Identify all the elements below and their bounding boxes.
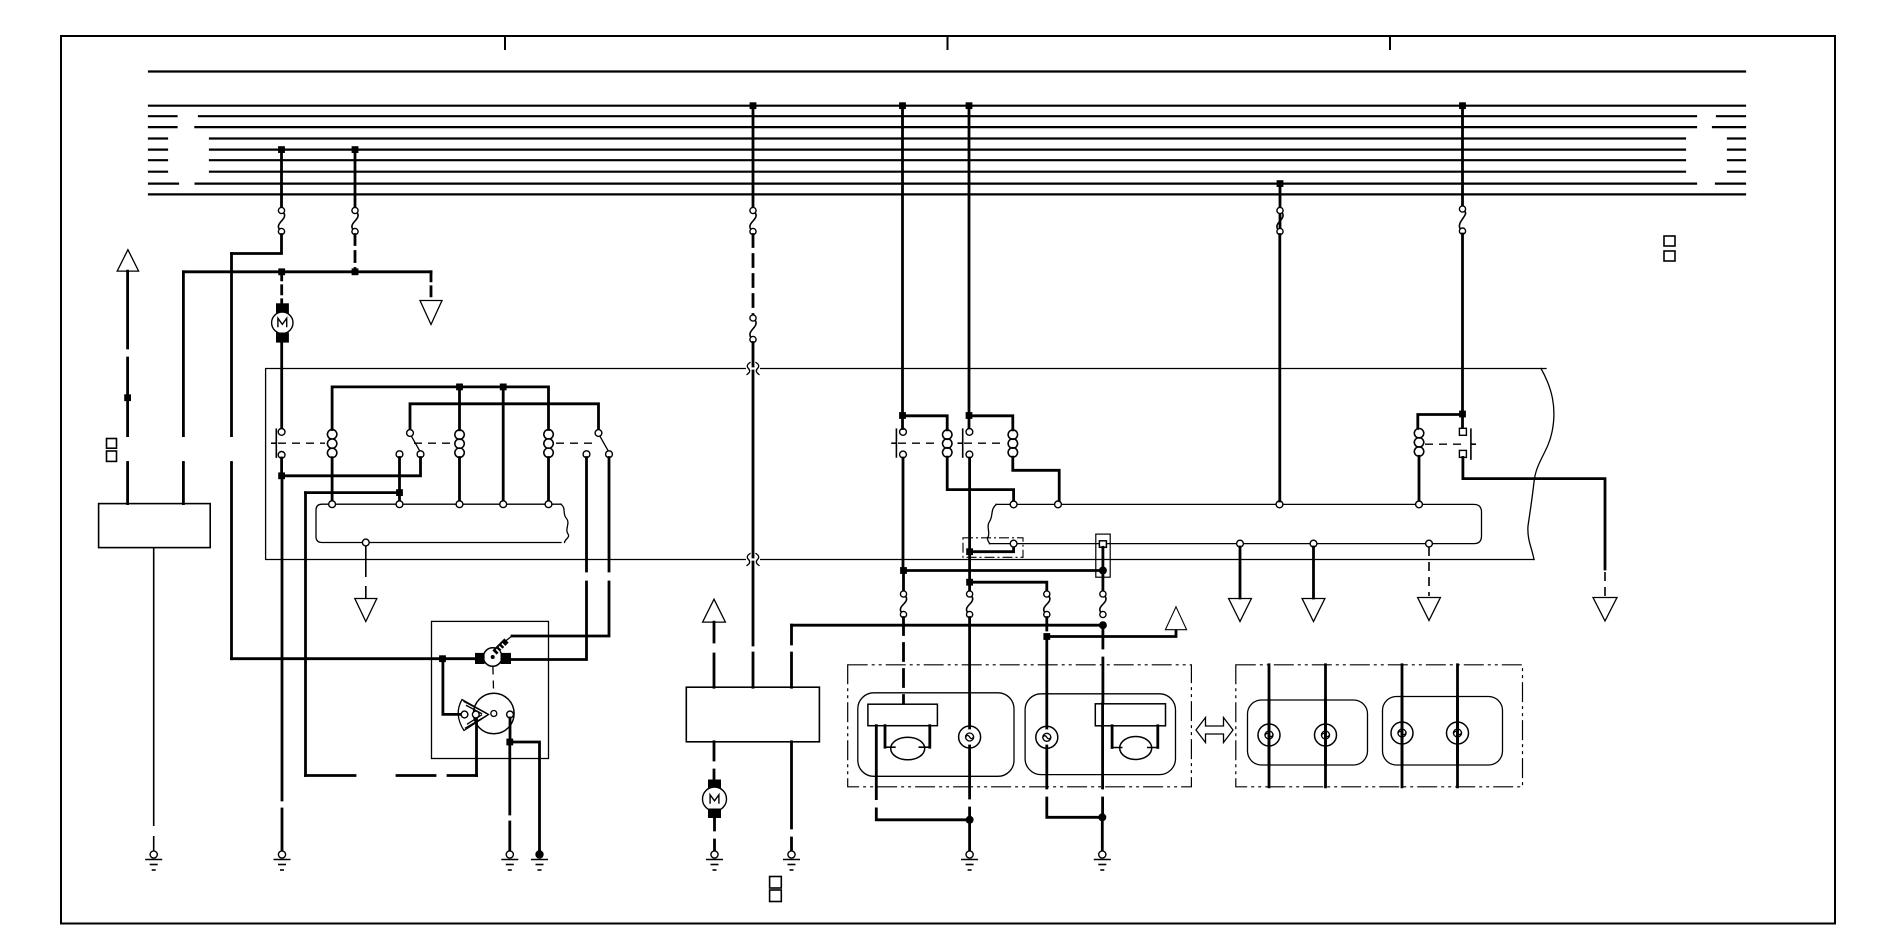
wire R4 to fuse F5 bbox=[902, 571, 905, 592]
wire F7 to bulb B2 bbox=[1045, 618, 1048, 729]
wire bulb B3 bbox=[1268, 665, 1271, 787]
ground G5 bbox=[783, 851, 800, 870]
relay R1 coil bbox=[327, 430, 336, 458]
arrow down A6 bbox=[1229, 599, 1252, 622]
wire bulb B5 bbox=[1401, 665, 1404, 787]
fuse F1 bbox=[278, 207, 284, 234]
fuse F2 bbox=[352, 207, 358, 234]
wire U2 to motor M2 bbox=[713, 742, 716, 780]
fuse F10 bbox=[1459, 206, 1465, 234]
wire R4 pin gap bbox=[901, 416, 904, 429]
wire drop to fuse F1 bbox=[280, 150, 283, 208]
fuse F8 bbox=[1100, 591, 1106, 618]
fuse F7 bbox=[1044, 591, 1050, 618]
wire bulb B4 bbox=[1324, 665, 1327, 787]
junction link492 bbox=[396, 489, 403, 496]
wire coil R6 to pin bbox=[1418, 456, 1421, 501]
wire R4 bottom long bbox=[902, 458, 905, 571]
ground G1 bbox=[145, 851, 162, 870]
arrow up A4 bbox=[703, 599, 726, 622]
relay box torn right edge bbox=[1528, 369, 1554, 560]
fuse F6 bbox=[967, 591, 973, 618]
wire coil R4 down-right bbox=[947, 457, 1013, 501]
junction rail1 b bbox=[500, 384, 507, 391]
wire bulb B1 to ground bbox=[968, 746, 971, 851]
arrow down A1 bbox=[420, 301, 442, 325]
wire branch to coil R6 bbox=[1418, 415, 1463, 429]
wire drop x=902.5 bbox=[901, 106, 904, 416]
arrow down A9 bbox=[1593, 598, 1617, 622]
pin lower box k bbox=[1237, 540, 1244, 547]
wire drop to fuse F2 bbox=[354, 150, 357, 208]
wire riser from line P bbox=[790, 625, 793, 687]
pin lower box h bbox=[1276, 501, 1283, 508]
wire to rotor pins bbox=[443, 659, 461, 715]
wire bus line 7 bbox=[149, 159, 1745, 161]
pin lower box c bbox=[456, 501, 463, 508]
ground G2 bbox=[274, 851, 291, 870]
junction B2 ground bbox=[1098, 813, 1106, 821]
wire link y=475.8 bbox=[282, 458, 421, 476]
wire U1 to ground bbox=[153, 548, 155, 851]
wire drop x=1280 to pin bbox=[1279, 184, 1282, 234]
wire R3 left pin to condenser bbox=[512, 458, 587, 660]
ground G3b filled bbox=[531, 850, 548, 870]
wire dashed shaft arrow A8 bbox=[1428, 547, 1430, 596]
junction bus D bbox=[899, 102, 906, 109]
pin lower box e bbox=[545, 501, 552, 508]
junction C1 bbox=[1099, 567, 1107, 575]
pin rotor b bbox=[472, 711, 479, 718]
junction bus B bbox=[352, 146, 359, 153]
junction line P end bbox=[1099, 621, 1107, 629]
wire link to box pin bbox=[970, 547, 1014, 552]
bulb B2 bbox=[1036, 726, 1058, 748]
ground G4 bbox=[706, 851, 723, 870]
junction bus G bbox=[1277, 180, 1284, 187]
wire bus line 3 bbox=[149, 115, 1745, 117]
fuse F5 bbox=[900, 591, 906, 618]
control unit box U2 bbox=[686, 687, 819, 742]
ground G7 bbox=[1094, 851, 1111, 870]
fuse box lower outline right bbox=[990, 504, 1482, 543]
relay box outline bbox=[266, 369, 1546, 560]
ballast unit 1 bbox=[868, 704, 938, 760]
wire F1 to x=231.5 bbox=[232, 235, 282, 254]
wire line P bbox=[792, 624, 1103, 627]
connector squares K1 bbox=[107, 439, 117, 462]
wire M2 to ground bbox=[713, 818, 716, 851]
junction bus A bbox=[278, 146, 285, 153]
relay R6 coil bbox=[1414, 429, 1423, 457]
pin lower box f bbox=[1010, 501, 1017, 508]
arrow down A8 bbox=[1418, 598, 1441, 621]
ground G6 bbox=[961, 851, 978, 870]
relay R2 coil bbox=[455, 430, 464, 457]
fuse box lower outline left bbox=[316, 504, 561, 542]
wire A2 shaft lower bbox=[126, 463, 129, 504]
wire vertical x=231.5 lower bbox=[230, 463, 233, 659]
wire bus line 9 bbox=[149, 183, 1745, 185]
wire dashed y=775.5 bbox=[306, 774, 477, 777]
wire through ballast2 to ground bbox=[1101, 704, 1104, 851]
junction R5 link1 bbox=[966, 548, 973, 555]
wire x=305.5 down bbox=[304, 493, 307, 776]
relay R3 actuation dashes bbox=[556, 442, 592, 444]
junction R4 mid bbox=[900, 567, 907, 574]
relay R4 contact bbox=[891, 428, 896, 457]
pin lower box b bbox=[396, 501, 403, 508]
relay R2 switch arm bbox=[396, 430, 424, 458]
wire bus line 5 bbox=[149, 137, 1745, 139]
wire branch to coil R4 bbox=[903, 416, 948, 430]
pin lower box j bbox=[1010, 540, 1017, 547]
relay R4 pin bottom bbox=[900, 451, 907, 458]
wire A2 shaft mid bbox=[126, 358, 129, 436]
relay R1 pin bottom bbox=[278, 452, 285, 459]
wire shaft arrow A7 bbox=[1312, 547, 1315, 598]
bulb B5 bbox=[1391, 722, 1413, 744]
wire bus line 2 bbox=[149, 105, 1745, 107]
fold tick 1 bbox=[504, 36, 506, 50]
wire link y=492.6 bbox=[306, 491, 400, 494]
motor M1 bbox=[272, 303, 293, 342]
wire shaft arrow A6 bbox=[1239, 547, 1242, 598]
wire B5 inner bbox=[1401, 697, 1404, 766]
relay R6 actuation dashes bbox=[1425, 443, 1466, 445]
wire F10 down bbox=[1461, 234, 1464, 429]
wire bus line 8 bbox=[149, 171, 1745, 173]
pin lower box d bbox=[500, 501, 507, 508]
wire coil R5 down-right bbox=[1013, 457, 1059, 501]
junction bus C bbox=[750, 102, 757, 109]
wire line Q bbox=[1047, 631, 1176, 637]
wire horizontal feed y=271.8 bbox=[183, 270, 431, 273]
wire R6 bottom to arrow bbox=[1463, 457, 1605, 569]
connector squares K3 bbox=[1664, 236, 1675, 261]
wire feed rail 2 bbox=[410, 404, 599, 430]
junction B1 ground bbox=[966, 816, 974, 824]
bulb B1 bbox=[959, 726, 981, 748]
fuse F9 bbox=[1277, 207, 1283, 234]
wire R2 left pin down bbox=[398, 458, 401, 502]
junction R1 bottom bbox=[278, 472, 285, 479]
wire coil R2 to pin bbox=[458, 458, 461, 502]
wire vertical x=231.5 upper bbox=[230, 254, 233, 436]
wire A2 shaft upper bbox=[126, 271, 129, 348]
wire F2 down dashed bbox=[354, 235, 357, 272]
relay R5 coil bbox=[1008, 430, 1017, 457]
bulb B4 bbox=[1315, 724, 1337, 746]
bulb B6 bbox=[1447, 722, 1469, 744]
distributor box bbox=[432, 621, 549, 758]
wire ballast2 inner bbox=[1101, 704, 1104, 726]
wire R1 to ground G2 bbox=[281, 476, 284, 851]
wire riser x=503.2 to pin bbox=[502, 387, 505, 501]
wire branch to ground G3b bbox=[510, 742, 540, 851]
wire bulb B2 down bbox=[1047, 746, 1103, 817]
wire F4 through relay box bbox=[752, 343, 755, 688]
wire corner x=183.4 lower bbox=[182, 463, 185, 504]
relay R5 actuation dashes bbox=[964, 442, 1006, 444]
pin rotor a bbox=[461, 711, 468, 718]
connector block C1 bbox=[1096, 534, 1110, 577]
pin lower box g bbox=[1055, 501, 1062, 508]
wire F6 to bulb B1 bbox=[968, 618, 971, 729]
igniter unit bbox=[475, 648, 511, 667]
relay R2 actuation dashes bbox=[414, 442, 452, 444]
relay R5 pin top bbox=[966, 429, 973, 436]
relay R4 pin top bbox=[900, 429, 907, 436]
headlight L housing 1 bbox=[858, 693, 1014, 777]
pin lower box a bbox=[329, 501, 336, 508]
ballast unit 2 bbox=[1095, 704, 1165, 760]
wire F5 to ballast dashed bbox=[902, 618, 905, 705]
relay R3 switch arm bbox=[583, 430, 612, 458]
relay R6 pin top bbox=[1459, 428, 1466, 435]
wire dashed to arrow A3 bbox=[365, 546, 367, 598]
junction rail1 a bbox=[456, 384, 463, 391]
relay R6 pin bottom bbox=[1459, 450, 1466, 457]
wire rotor to ground G3a bbox=[508, 742, 511, 851]
wire coil R3 to pin bbox=[547, 458, 550, 502]
wire riser to rotor pin bbox=[475, 716, 478, 776]
relay R1 contact bbox=[271, 428, 276, 458]
junction condenser bbox=[439, 655, 446, 662]
ground G3a bbox=[501, 851, 518, 870]
wire C1 to fuse F8 bbox=[1102, 547, 1105, 591]
wire drop x=1462.5 bbox=[1461, 106, 1464, 207]
break mark box bottom bbox=[747, 554, 759, 566]
break mark box top bbox=[747, 363, 759, 375]
relay R5 contact bbox=[958, 428, 963, 457]
wire corner x=183.4 upper bbox=[182, 272, 185, 436]
wire rotor out bbox=[509, 718, 512, 739]
control unit box U1 bbox=[99, 504, 211, 548]
headlight R dash-dot box bbox=[1236, 665, 1523, 787]
arrow down A3 bbox=[355, 599, 377, 622]
wire R5 bottom long bbox=[968, 458, 971, 591]
relay R1 actuation dashes bbox=[278, 442, 325, 444]
junction bus E bbox=[966, 102, 973, 109]
fuse F4 bbox=[750, 315, 756, 343]
wire F8 to ballast2 bbox=[1102, 625, 1105, 704]
wire drop x=969 bbox=[968, 106, 971, 429]
pin lower box l bbox=[1310, 540, 1317, 547]
equivalence double arrow bbox=[1196, 718, 1233, 743]
fuse F3 bbox=[750, 207, 756, 234]
pin rotor c bbox=[507, 711, 514, 718]
fuse box left torn edge bbox=[561, 504, 569, 542]
headlight R housing 2 bbox=[1383, 697, 1503, 766]
relay R1 pin top bbox=[278, 429, 285, 436]
wire link to fuse F7 bbox=[970, 582, 1047, 591]
wire B3 inner bbox=[1268, 700, 1271, 765]
relay R4 coil bbox=[943, 430, 952, 457]
wire R1 bottom bbox=[280, 458, 283, 476]
wire dashed to motor M1 bbox=[280, 272, 283, 304]
wire bus line 4 bbox=[149, 126, 1745, 128]
arrow up A5 bbox=[1165, 607, 1186, 630]
wire condenser feed y=658.7 bbox=[232, 657, 476, 660]
junction bus F bbox=[1459, 102, 1466, 109]
junction R6 top bbox=[1459, 411, 1466, 418]
headlight L housing 2 bbox=[1025, 694, 1175, 775]
wire B4 inner bbox=[1324, 700, 1327, 765]
detail dash-dot box bbox=[963, 538, 1023, 558]
wire R3 right pin to igniter bbox=[512, 458, 609, 637]
wire bulb B6 bbox=[1456, 665, 1459, 787]
wire B6 inner bbox=[1456, 697, 1459, 766]
wire dashed to down arrow A9 bbox=[1604, 572, 1606, 596]
motor M2 bbox=[703, 780, 727, 819]
headlight L dash-dot box bbox=[848, 665, 1192, 787]
junction R4 top bbox=[899, 412, 906, 419]
bulb B3 bbox=[1258, 724, 1280, 746]
rotor arm wedge bbox=[458, 700, 488, 731]
junction left wire bbox=[124, 394, 131, 401]
wire bus line 6 bbox=[149, 149, 1745, 151]
wire dashed shaft down arrow A1 bbox=[430, 272, 433, 299]
headlight R housing 1 bbox=[1248, 700, 1368, 765]
arrow up A2 bbox=[117, 250, 138, 271]
wire F3 to F4 dashed bbox=[752, 235, 755, 316]
fuse box right torn edge bbox=[987, 504, 996, 543]
relay R4 actuation dashes bbox=[898, 442, 940, 444]
wire U2 right to ground bbox=[790, 742, 793, 851]
wire A4 shaft bbox=[713, 622, 716, 687]
wire link y=570.5 bbox=[904, 569, 1103, 572]
wire F9 down to pin bbox=[1278, 235, 1281, 502]
relay R6 contact bbox=[1471, 428, 1476, 460]
pin lower box out bbox=[362, 539, 369, 546]
junction rotor out bbox=[506, 739, 513, 746]
pin lower box i bbox=[1416, 501, 1423, 508]
pin lower box m bbox=[1426, 540, 1433, 547]
fold tick 2 bbox=[947, 36, 949, 50]
junction line Q bbox=[1043, 633, 1050, 640]
junction R5 top bbox=[966, 412, 973, 419]
relay R5 pin bottom bbox=[966, 451, 973, 458]
junction R5 link2 bbox=[966, 579, 973, 586]
igniter hatch bar bbox=[495, 636, 513, 653]
wire coil R2 riser bbox=[458, 387, 461, 430]
arrow down A7 bbox=[1302, 599, 1325, 622]
wire drop x=753 to fuse F3 bbox=[752, 106, 755, 208]
wire ballast1 to ground leg bbox=[876, 726, 965, 820]
dashed igniter to rotor bbox=[492, 667, 495, 694]
connector squares K2 bbox=[770, 877, 782, 902]
fold tick 3 bbox=[1389, 36, 1391, 50]
junction feed B bbox=[352, 268, 359, 275]
wire motor M1 to relay R1 bbox=[280, 343, 283, 429]
relay R3 coil bbox=[544, 430, 553, 458]
wire bus line 1 bbox=[149, 70, 1745, 72]
wire coil R1 to pin bbox=[331, 458, 334, 501]
wire bus line 10 bbox=[149, 193, 1745, 195]
wire feed rail 1 bbox=[332, 387, 548, 430]
junction feed A bbox=[278, 268, 285, 275]
rotor circle bbox=[474, 693, 515, 734]
wire branch to coil R5 bbox=[969, 416, 1013, 430]
